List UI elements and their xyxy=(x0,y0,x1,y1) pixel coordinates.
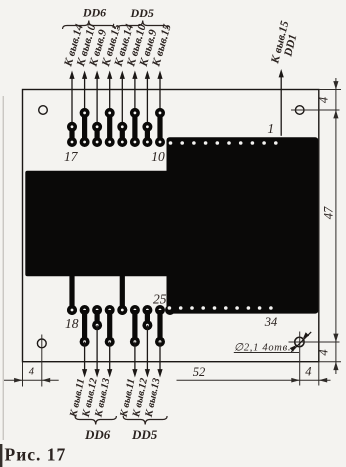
label К выв.10 xyxy=(125,23,149,69)
svg-text:4: 4 xyxy=(305,365,311,379)
label К выв.13 DD6 xyxy=(93,377,112,419)
bottom dim line left segment xyxy=(4,379,59,381)
mounting hole top-right xyxy=(295,106,304,115)
pad 20 lower land xyxy=(92,320,102,330)
pad 12 top land xyxy=(130,108,140,118)
pad 16 trace xyxy=(82,113,87,142)
label К выв.9 xyxy=(137,28,159,69)
label К выв.15 xyxy=(100,23,124,69)
label К выв.15 xyxy=(150,23,174,69)
bottom row pad x=122.3 xyxy=(117,305,127,315)
pad 25 trace xyxy=(157,310,162,342)
pad 13 top land xyxy=(117,122,127,132)
wire to pad 17 xyxy=(71,77,73,127)
pad 14 bottom land xyxy=(105,137,115,147)
pad 15 top land xyxy=(92,122,102,132)
svg-text:4: 4 xyxy=(317,97,331,103)
arrow pin label 15 xyxy=(107,71,112,79)
extension board right edge down xyxy=(318,362,320,386)
arrow pin label 14 xyxy=(69,71,74,79)
pad 11 trace xyxy=(145,127,150,142)
pour edge pad bump bottom xyxy=(165,305,175,315)
bottom row pad x=72.0 xyxy=(67,305,77,315)
pad 23 trace xyxy=(132,310,137,342)
label К выв.12 DD5 xyxy=(131,376,150,419)
bottom dim arrows xyxy=(14,378,22,383)
bottom row pad x=147.4 xyxy=(142,305,152,315)
dim text 4 top-right xyxy=(317,97,331,103)
svg-text:52: 52 xyxy=(193,365,206,379)
dim arrows right xyxy=(333,81,338,89)
wire to pad 12 xyxy=(134,77,136,113)
page margin faint line xyxy=(2,96,4,440)
wire to pad 11 xyxy=(146,77,148,127)
mounting hole bottom-right xyxy=(295,337,304,346)
pad 10 top land xyxy=(155,108,165,118)
svg-text:25: 25 xyxy=(153,292,167,307)
bottom row pad x=134.9 xyxy=(130,305,140,315)
wire from pad 19 xyxy=(84,342,86,371)
pad 17 bottom land xyxy=(67,137,77,147)
pad 15 trace xyxy=(95,127,100,142)
svg-text:∅2,1 4отв.: ∅2,1 4отв. xyxy=(234,343,291,354)
wire from pad 23 xyxy=(134,342,136,371)
wire to pad 14 xyxy=(109,77,111,113)
arrow pin label 15 xyxy=(157,71,162,79)
pad 13 trace xyxy=(120,127,125,142)
pad 24 trace xyxy=(145,310,150,325)
wire to pad 15 xyxy=(96,77,98,127)
pad 23 lower land xyxy=(130,337,140,347)
label К выв.14 xyxy=(112,23,136,69)
pad 21 trace xyxy=(107,310,112,342)
arrow pin label 9 xyxy=(95,71,100,79)
svg-text:4: 4 xyxy=(29,367,35,378)
label К выв.11 DD6 xyxy=(68,378,87,419)
centerline top-right hole xyxy=(291,109,340,111)
label К выв.14 xyxy=(62,23,86,69)
pad 19 lower land xyxy=(80,337,90,347)
top row pads 1..10 region white dots xyxy=(169,141,173,145)
svg-text:Рис. 17: Рис. 17 xyxy=(5,444,67,464)
brace DD6 bottom xyxy=(75,416,116,425)
pad 21 lower land xyxy=(105,337,115,347)
pour trace to pad 22 xyxy=(120,271,125,310)
wire from pad 24 xyxy=(146,325,148,370)
wire from pad 25 xyxy=(159,342,161,371)
wire to pad 13 xyxy=(121,77,123,127)
board outline xyxy=(23,90,319,362)
centerlines bottom-right hole xyxy=(289,341,340,343)
label К выв.11 DD5 xyxy=(118,378,137,419)
pad 20 trace xyxy=(95,310,100,325)
bottom row pad x=109.7 xyxy=(105,305,115,315)
arrow pin label 10 xyxy=(132,71,137,79)
pad 16 bottom land xyxy=(80,137,90,147)
bottom row pad x=160.0 xyxy=(155,305,165,315)
svg-text:DD6: DD6 xyxy=(84,427,111,442)
right vertical dimension line xyxy=(335,78,337,374)
label К выв.10 xyxy=(75,23,99,69)
bottom dim line right segment xyxy=(177,379,331,381)
wire from pad 21 xyxy=(109,342,111,371)
dim text 4 bottom-right xyxy=(317,349,331,355)
svg-text:1: 1 xyxy=(267,121,274,136)
pad 15 bottom land xyxy=(92,137,102,147)
wire to pad 1 (К выв.15 DD1) xyxy=(280,76,282,136)
pad 12 bottom land xyxy=(130,137,140,147)
brace DD6 top xyxy=(63,21,116,30)
label К выв.9 xyxy=(87,28,109,69)
pad 13 bottom land xyxy=(117,137,127,147)
copper pour left block xyxy=(25,171,168,276)
svg-text:18: 18 xyxy=(65,316,79,331)
label К выв.12 DD6 xyxy=(81,376,100,419)
mounting hole bottom-left xyxy=(37,339,46,348)
svg-text:4: 4 xyxy=(317,349,331,355)
pour trace to pad 18 xyxy=(69,271,74,310)
callout diagonal arrowheads xyxy=(290,345,296,351)
pad 17 top land xyxy=(67,122,77,132)
centerline bottom-left hole xyxy=(41,335,43,387)
arrow pin label 9 xyxy=(145,71,150,79)
arrow pin label 14 xyxy=(120,71,125,79)
svg-text:DD6: DD6 xyxy=(82,6,106,20)
svg-text:DD5: DD5 xyxy=(130,6,154,20)
dim text 47 xyxy=(322,206,336,219)
pad 25 lower land xyxy=(155,337,165,347)
svg-text:10: 10 xyxy=(151,149,165,164)
wire to pad 10 xyxy=(159,77,161,113)
pad 24 lower land xyxy=(142,320,152,330)
extension board bottom edge right xyxy=(319,361,341,363)
pad 16 top land xyxy=(80,108,90,118)
pad 11 bottom land xyxy=(142,137,152,147)
bottom row pad x=84.6 xyxy=(80,305,90,315)
callout diagonal line through hole xyxy=(291,332,311,352)
bottom row pads 26..34 white dots xyxy=(168,306,172,310)
page edge dark mark bottom-left xyxy=(0,444,2,467)
label К выв.13 DD5 xyxy=(143,377,162,419)
wire to pad 16 xyxy=(84,77,86,113)
extension board top edge right xyxy=(319,89,341,91)
brace DD5 bottom xyxy=(123,416,167,425)
brace DD5 top xyxy=(118,21,168,30)
pad 17 trace xyxy=(69,127,74,142)
label К выв.15 DD1 xyxy=(269,20,302,69)
svg-text:34: 34 xyxy=(264,315,278,329)
copper pour right block xyxy=(167,137,319,313)
pad 19 trace xyxy=(82,310,87,342)
arrow pin label 10 xyxy=(82,71,87,79)
svg-text:DD5: DD5 xyxy=(131,427,158,442)
svg-text:17: 17 xyxy=(64,149,79,164)
pad 14 top land xyxy=(105,108,115,118)
extension board left edge down xyxy=(22,362,24,387)
pad 12 trace xyxy=(132,113,137,142)
bottom row pad x=97.1 xyxy=(92,305,102,315)
pad 11 top land xyxy=(142,122,152,132)
wire from pad 20 xyxy=(96,325,98,370)
pad 10 trace xyxy=(157,113,162,142)
pad 14 trace xyxy=(107,113,112,142)
pad 10 bottom land xyxy=(155,137,165,147)
svg-text:47: 47 xyxy=(322,206,336,219)
mounting hole top-left xyxy=(39,106,48,115)
